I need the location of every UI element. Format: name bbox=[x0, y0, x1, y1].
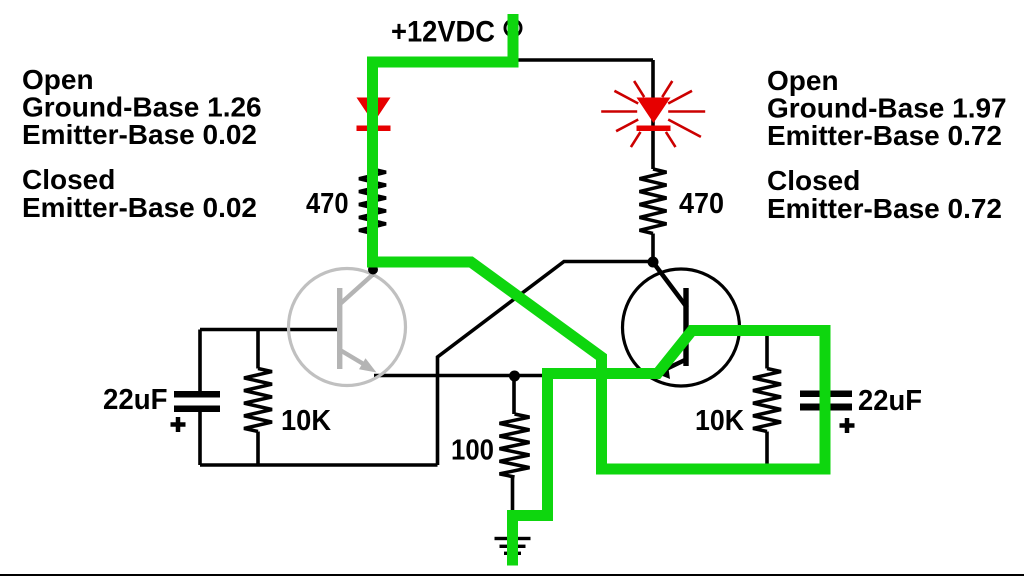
svg-text:Emitter-Base 0.72: Emitter-Base 0.72 bbox=[767, 193, 1002, 224]
svg-text:10K: 10K bbox=[695, 405, 744, 437]
svg-text:Emitter-Base 0.72: Emitter-Base 0.72 bbox=[767, 120, 1002, 151]
svg-text:Ground-Base 1.97: Ground-Base 1.97 bbox=[767, 93, 1007, 124]
svg-text:Closed: Closed bbox=[767, 165, 860, 196]
svg-text:22uF: 22uF bbox=[858, 385, 922, 417]
svg-text:Open: Open bbox=[22, 64, 94, 95]
svg-text:22uF: 22uF bbox=[103, 384, 168, 416]
svg-text:470: 470 bbox=[679, 188, 724, 220]
svg-text:+12VDC: +12VDC bbox=[391, 16, 495, 49]
svg-text:100: 100 bbox=[451, 435, 494, 467]
svg-text:Emitter-Base 0.02: Emitter-Base 0.02 bbox=[22, 119, 257, 150]
svg-text:Ground-Base 1.26: Ground-Base 1.26 bbox=[22, 92, 262, 123]
svg-text:Emitter-Base 0.02: Emitter-Base 0.02 bbox=[22, 192, 257, 223]
svg-text:Open: Open bbox=[767, 65, 839, 96]
svg-text:470: 470 bbox=[306, 188, 349, 220]
svg-text:Closed: Closed bbox=[22, 164, 115, 195]
svg-text:10K: 10K bbox=[281, 405, 331, 437]
